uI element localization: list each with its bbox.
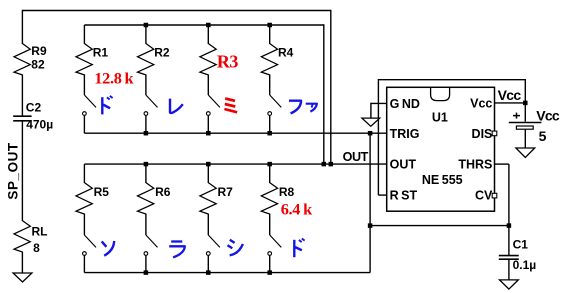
svg-text:Vcc: Vcc: [470, 97, 492, 111]
junction: [322, 162, 327, 167]
wire: [145, 256, 147, 273]
label Do2: [293, 240, 295, 257]
wire: [323, 24, 325, 164]
wire: [370, 103, 372, 118]
wire: [330, 10, 332, 164]
junction: [507, 223, 512, 228]
svg-text:Vcc: Vcc: [498, 87, 522, 103]
svg-text:0.1µ: 0.1µ: [513, 258, 537, 272]
wire: [524, 129, 526, 148]
label Fa: [289, 101, 301, 114]
wire: [369, 133, 371, 272]
resistor R7: [200, 183, 216, 214]
svg-text:R4: R4: [278, 45, 294, 59]
wire: [83, 214, 85, 235]
wire: [84, 272, 370, 274]
junction: [144, 270, 149, 275]
svg-text:DIS: DIS: [472, 127, 493, 141]
switch S2: [146, 95, 158, 107]
label Re: [170, 99, 183, 113]
svg-text:TRIG: TRIG: [390, 127, 420, 141]
switch S6: [146, 235, 158, 247]
wire: [21, 121, 23, 221]
svg-text:8: 8: [33, 241, 40, 255]
wire: [269, 214, 271, 235]
svg-text:82: 82: [31, 58, 45, 72]
wire: [207, 75, 209, 96]
switch S4: [270, 95, 282, 107]
svg-text:470µ: 470µ: [26, 118, 53, 132]
wire: [524, 103, 526, 122]
resistor R6: [138, 183, 154, 214]
ground: [500, 280, 519, 289]
junction: [267, 23, 272, 28]
wire: [145, 75, 147, 96]
svg-text:RL: RL: [32, 225, 48, 239]
wire: [145, 164, 147, 183]
pin CV marker: [492, 193, 497, 198]
svg-text:R7: R7: [218, 185, 234, 199]
wire: [378, 194, 387, 196]
svg-text:R9: R9: [31, 44, 47, 58]
junction: [267, 131, 272, 136]
wire: [508, 259, 510, 280]
wire: [83, 256, 85, 273]
junction: [144, 162, 149, 167]
junction: [144, 131, 149, 136]
junction: [267, 270, 272, 275]
junction: [206, 270, 211, 275]
resistor R3: [200, 44, 216, 75]
wire: [84, 24, 323, 26]
svg-text:OUT: OUT: [343, 150, 369, 164]
label Mi: [225, 99, 235, 101]
wire: [377, 79, 379, 195]
wire: [269, 256, 271, 273]
junction: [206, 131, 211, 136]
wire: [145, 116, 147, 134]
wire: [83, 75, 85, 96]
wire: [495, 102, 526, 104]
resistor R1: [76, 44, 92, 75]
label Si: [230, 240, 235, 243]
junction: [267, 162, 272, 167]
wire: [269, 75, 271, 96]
wire: [145, 25, 147, 44]
resistor R9: [14, 44, 30, 75]
label So: [102, 241, 107, 246]
svg-text:THRS: THRS: [458, 158, 492, 172]
wire: [207, 214, 209, 235]
capacitor C1: [499, 255, 519, 257]
svg-text:C1: C1: [513, 238, 529, 252]
resistor R4: [261, 44, 277, 75]
wire: [378, 79, 525, 81]
svg-text:R8: R8: [279, 185, 295, 199]
svg-text:Vcc: Vcc: [536, 108, 560, 124]
wire: [83, 25, 85, 44]
wire: [371, 102, 387, 104]
wire: [21, 10, 23, 44]
wire: [83, 116, 85, 134]
svg-text:5: 5: [539, 128, 547, 144]
wire: [207, 256, 209, 273]
label Ra: [171, 240, 182, 242]
wire: [84, 132, 387, 134]
resistor R8: [261, 183, 277, 214]
wire: [269, 116, 271, 134]
op-amp U1 body: [387, 87, 495, 211]
capacitor C2: [13, 115, 31, 117]
resistor RL: [14, 221, 30, 252]
svg-text:6.4 k: 6.4 k: [281, 200, 313, 219]
svg-text:R1: R1: [93, 45, 109, 59]
wire: [84, 163, 387, 165]
ground: [516, 148, 535, 157]
junction: [206, 23, 211, 28]
switch S1: [84, 95, 96, 107]
switch S8: [270, 235, 282, 247]
junction: [329, 162, 334, 167]
junction: [144, 23, 149, 28]
svg-text:R2: R2: [154, 45, 170, 59]
switch S3: [208, 95, 220, 107]
wire: [207, 116, 209, 134]
wire: [524, 79, 526, 103]
junction: [368, 131, 373, 136]
resistor R2: [138, 44, 154, 75]
wire: [269, 164, 271, 183]
wire: [22, 10, 330, 12]
battery Vcc: [509, 122, 542, 124]
wire: [83, 164, 85, 183]
wire: [370, 225, 509, 227]
wire: [145, 214, 147, 235]
svg-text:CV: CV: [475, 189, 493, 203]
svg-text:12.8 k: 12.8 k: [94, 68, 134, 87]
svg-text:SP_OUT: SP_OUT: [6, 142, 21, 200]
svg-text:G ND: G ND: [390, 97, 420, 111]
resistor R5: [76, 183, 92, 214]
wire: [269, 25, 271, 44]
wire: [207, 25, 209, 44]
wire: [21, 75, 23, 116]
wire: [21, 252, 23, 273]
junction: [206, 162, 211, 167]
junction: [523, 101, 528, 106]
wire: [508, 226, 510, 255]
ground: [362, 118, 380, 126]
svg-text:R ST: R ST: [390, 189, 418, 203]
label Do: [101, 97, 103, 114]
wire: [508, 164, 510, 226]
svg-text:U1: U1: [432, 111, 448, 125]
pin DIS marker: [492, 131, 497, 136]
switch S5: [84, 235, 96, 247]
svg-text:R6: R6: [155, 185, 171, 199]
svg-text:C2: C2: [26, 100, 42, 114]
wire: [207, 164, 209, 183]
svg-text:OUT: OUT: [390, 158, 417, 172]
switch S7: [208, 235, 220, 247]
wire: [495, 163, 509, 165]
ground: [13, 273, 32, 282]
svg-text:R5: R5: [94, 185, 110, 199]
svg-text:R3: R3: [217, 52, 238, 72]
junction: [368, 223, 373, 228]
svg-text:NE 555: NE 555: [422, 173, 463, 187]
